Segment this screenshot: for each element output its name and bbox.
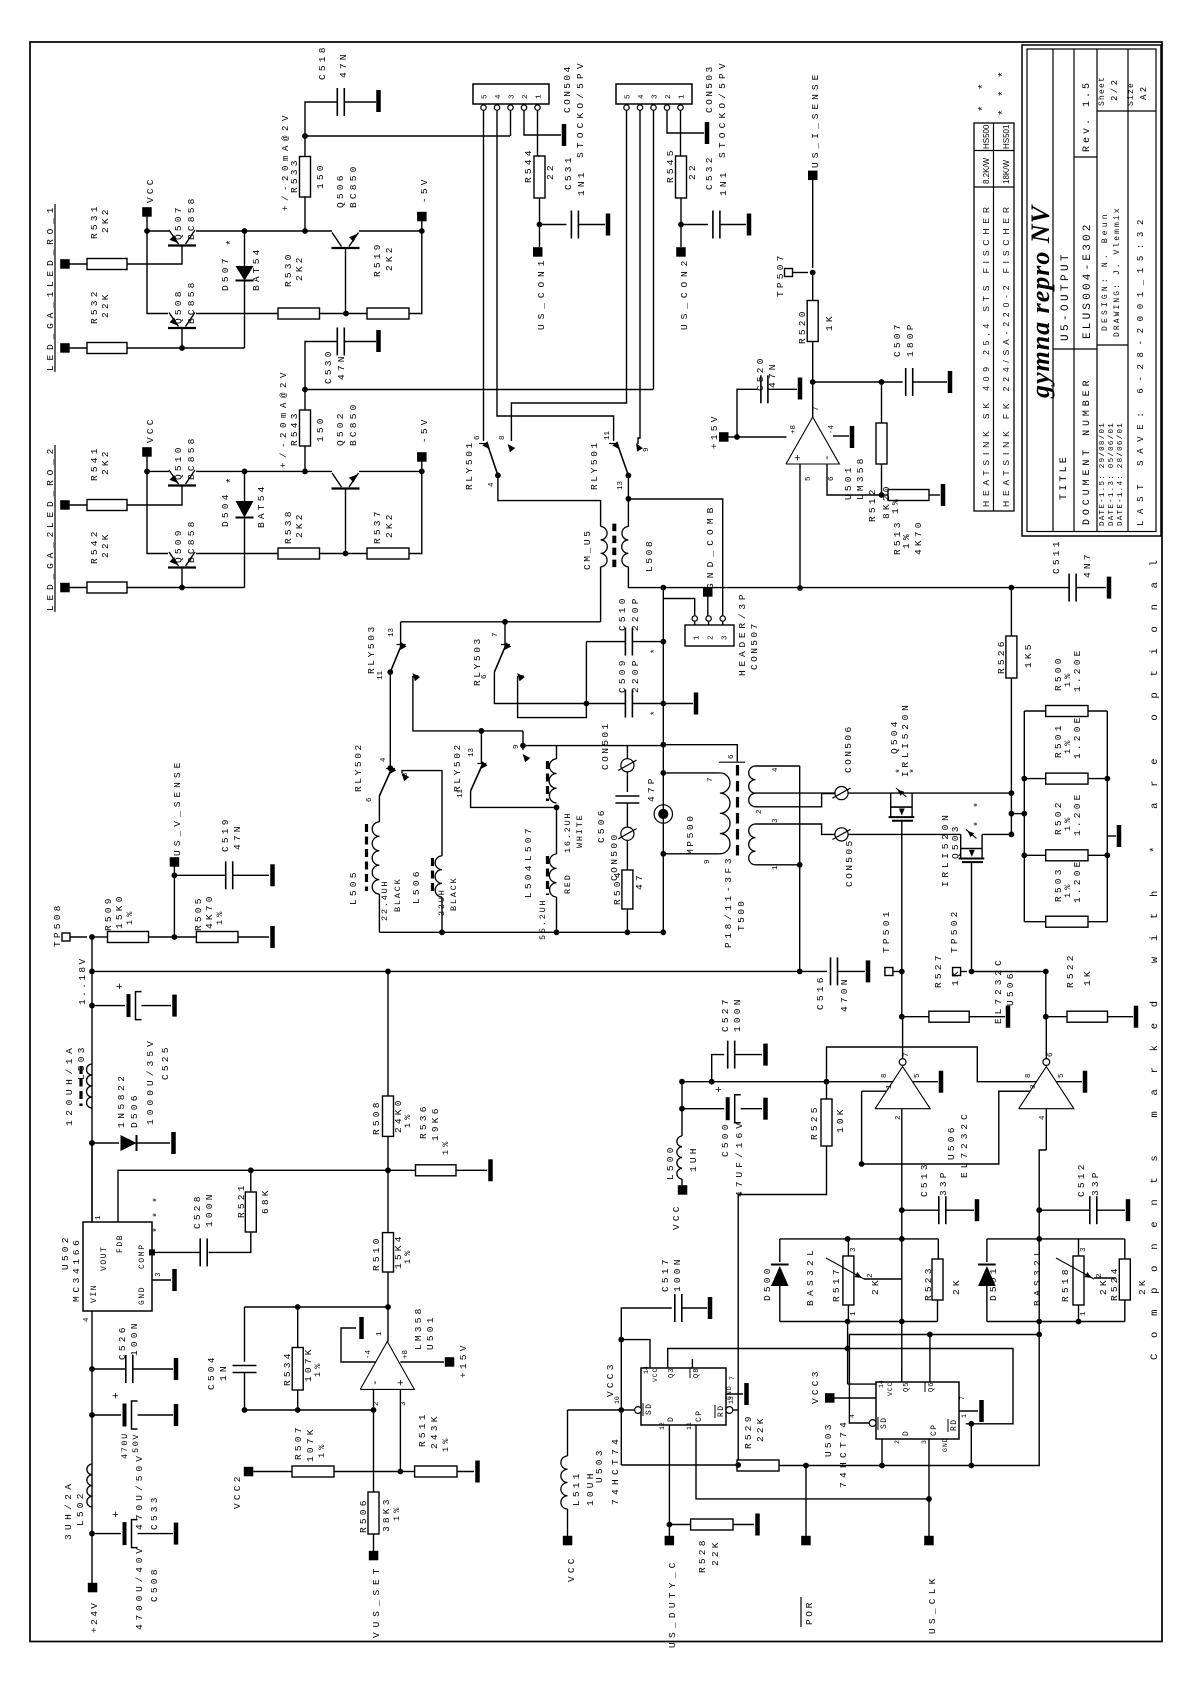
svg-text:CON505: CON505 <box>844 838 855 887</box>
wire Q503 drain to bank tap <box>982 833 1011 835</box>
svg-text:2K: 2K <box>1098 1277 1109 1295</box>
transistor Q508 BC858 <box>168 327 196 329</box>
svg-text:2K: 2K <box>870 1277 881 1295</box>
port VCC (block2) <box>142 447 152 457</box>
ground (C527) <box>763 1044 768 1066</box>
svg-text:CON507: CON507 <box>749 621 760 670</box>
svg-text:47P: 47P <box>646 775 657 802</box>
wire <box>69 587 87 589</box>
transformer T500 secondary lower <box>749 824 756 865</box>
wire U506a input riser <box>901 1109 903 1382</box>
svg-text:68K: 68K <box>260 1187 271 1214</box>
svg-text:SD: SD <box>645 1403 654 1415</box>
svg-text:150: 150 <box>315 162 326 189</box>
svg-text:R541: R541 <box>89 445 100 481</box>
port US_I_SENSE <box>812 177 814 268</box>
svg-text:D: D <box>667 1417 676 1422</box>
svg-text:R504: R504 <box>612 869 623 905</box>
wire VCC3 riser to POR net <box>620 1410 622 1465</box>
svg-text:DATE-1.4: 28/06/01: DATE-1.4: 28/06/01 <box>1117 422 1125 526</box>
capacitor C519 47N <box>174 874 225 876</box>
resistor R519 2K2 <box>367 308 409 319</box>
svg-text:Q5: Q5 <box>903 1382 911 1392</box>
svg-text:EL7232C: EL7232C <box>959 1112 970 1178</box>
wire CON504 pin1 to R544 <box>537 110 539 156</box>
wire R524 <box>1124 1239 1126 1259</box>
wire Q509 base to LED_GA_2 <box>181 568 183 588</box>
ground (C507) <box>913 381 947 383</box>
svg-text:2K: 2K <box>951 1277 962 1295</box>
svg-text:-4: -4 <box>365 1349 373 1359</box>
svg-text:C526: C526 <box>117 1324 128 1360</box>
svg-text:50V: 50V <box>131 1433 141 1453</box>
svg-text:GND: GND <box>726 1385 733 1400</box>
svg-text:6: 6 <box>828 476 836 481</box>
wire top row py1307 (C504/R534) <box>245 1306 389 1308</box>
svg-text:R525: R525 <box>809 1104 820 1140</box>
capacitor C520 47N <box>760 375 762 403</box>
svg-text:Q503: Q503 <box>950 823 961 859</box>
svg-text:3: 3 <box>155 1272 163 1277</box>
connector CON504 STOCKO/5PV <box>473 84 549 104</box>
svg-text:R534: R534 <box>282 1350 293 1386</box>
wire RLY503b common to C509 net <box>494 672 586 703</box>
ground (U506b pin5) <box>1056 1081 1082 1083</box>
svg-text:1%: 1% <box>317 1441 327 1458</box>
svg-text:VCC: VCC <box>145 416 156 443</box>
inductor L503 120UH/1A <box>87 1064 92 1108</box>
ground (C509 node) <box>663 703 693 705</box>
wire RLY501b common to L508 <box>627 475 629 498</box>
port LED_GA_1 <box>60 343 69 353</box>
svg-text:R510: R510 <box>371 1235 382 1271</box>
wire Q502 emitter to -5V 2 <box>359 470 422 472</box>
svg-text:100N: 100N <box>204 1191 215 1227</box>
svg-text:D506: D506 <box>129 1092 140 1128</box>
inductor L511 10UH <box>561 1456 568 1509</box>
svg-text:1N1: 1N1 <box>576 169 587 196</box>
svg-text:22: 22 <box>687 162 698 180</box>
wire long row py745.6 <box>523 745 663 747</box>
wire <box>69 347 87 349</box>
svg-text:*: * <box>895 768 907 774</box>
svg-text:-5V: -5V <box>419 416 430 443</box>
svg-text:+8: +8 <box>790 425 798 434</box>
wire U506a pin1 <box>862 1090 887 1092</box>
svg-text:+8: +8 <box>402 1350 410 1359</box>
wire U503a CP pin <box>696 1425 929 1499</box>
svg-text:EL7232C: EL7232C <box>993 958 1004 1024</box>
wire Q506 base <box>345 248 347 314</box>
svg-text:R544: R544 <box>523 147 534 183</box>
wire +15V node <box>728 436 738 438</box>
svg-text:8: 8 <box>1025 1073 1033 1078</box>
resistor R510 15K4 1% <box>383 1233 394 1272</box>
svg-text:L505: L505 <box>348 869 359 905</box>
svg-text:22: 22 <box>545 162 556 180</box>
svg-text:R531: R531 <box>89 203 100 239</box>
port US_DUTY_C <box>668 1525 670 1537</box>
svg-text:*: * <box>650 711 660 716</box>
svg-text:L504: L504 <box>523 862 534 898</box>
wire U501a output <box>387 1307 389 1342</box>
svg-text:SD: SD <box>880 1417 889 1429</box>
resistor R527 1K <box>902 1016 929 1018</box>
svg-text:*: * <box>650 649 660 654</box>
port LED_RO_2 <box>60 500 69 510</box>
wire U506b input riser <box>1045 1109 1047 1150</box>
ground (C520) <box>768 388 797 390</box>
trimmer R517 2K <box>843 1256 854 1305</box>
wire R543 <box>304 446 306 471</box>
resistor R526 1K5 <box>1006 636 1017 678</box>
capacitor C510 220P <box>586 641 625 643</box>
svg-text:RLY502: RLY502 <box>353 742 364 792</box>
resistor R536 19K6 1% <box>416 1165 457 1176</box>
wire Q503 source <box>971 862 973 971</box>
transistor Q502 BC850 <box>332 487 360 489</box>
resistor R525 10K <box>821 1099 832 1146</box>
snubber loop B bottom <box>987 1321 1125 1323</box>
svg-text:C507: C507 <box>892 321 903 357</box>
resistor R500 1.20E 1% <box>1046 706 1088 717</box>
svg-text:7: 7 <box>707 777 715 782</box>
svg-text:R521: R521 <box>236 1182 247 1218</box>
svg-text:L508: L508 <box>644 539 655 572</box>
svg-text:BC858: BC858 <box>186 279 197 324</box>
svg-text:2K2: 2K2 <box>294 511 305 538</box>
wire Q509 collector row <box>196 553 278 555</box>
svg-text:47N: 47N <box>336 353 347 380</box>
svg-text:220P: 220P <box>630 595 641 631</box>
svg-text:*: * <box>978 83 990 90</box>
svg-text:C520: C520 <box>755 355 766 391</box>
wire RLY502b pin9 riser + branch <box>522 731 524 750</box>
wire R521 <box>250 1170 252 1192</box>
svg-text:47N: 47N <box>232 823 243 850</box>
svg-text:STOCKO/5PV: STOCKO/5PV <box>717 61 728 158</box>
svg-text:22K: 22K <box>710 1539 721 1566</box>
wire VCC3b to box <box>835 1397 877 1399</box>
testpoint TP507 <box>785 269 793 277</box>
svg-text:7: 7 <box>729 1376 736 1380</box>
svg-text:R543: R543 <box>289 410 300 446</box>
svg-text:3: 3 <box>509 94 517 99</box>
svg-text:2: 2 <box>867 1273 875 1278</box>
capacitor C516 470N (inline to gnd) <box>830 957 832 985</box>
svg-text:R529: R529 <box>743 1413 754 1449</box>
svg-text:R505: R505 <box>193 895 204 931</box>
svg-text:CP: CP <box>695 1410 704 1422</box>
wire R504 bottom <box>626 909 628 932</box>
svg-text:US_V_SENSE: US_V_SENSE <box>172 760 183 856</box>
svg-text:7: 7 <box>492 632 500 637</box>
title block inner <box>1027 49 1156 532</box>
capacitor C500 47UF/16V <box>682 1108 724 1110</box>
wire CON506 row <box>755 792 836 794</box>
svg-text:Q504: Q504 <box>889 718 900 754</box>
svg-text:VUS_SET: VUS_SET <box>371 1566 382 1638</box>
wire Q506 emitter to -5V <box>359 230 422 232</box>
svg-text:10UH: 10UH <box>585 1470 596 1506</box>
svg-text:RLY501: RLY501 <box>464 440 475 490</box>
wire U503b Q pin to U506a <box>901 1368 903 1382</box>
svg-text:9: 9 <box>643 447 651 452</box>
svg-text:US_CON2: US_CON2 <box>679 258 690 330</box>
wire R526 <box>1010 588 1012 636</box>
wire CON503 pin1 to R545 <box>680 110 682 156</box>
svg-text:BC858: BC858 <box>186 195 197 240</box>
resistor R521 68K <box>245 1192 256 1232</box>
diode D506 1N5822 <box>89 1140 95 1146</box>
resistor R532 22K <box>87 343 127 354</box>
driver U506 half B EL7232C <box>1019 1067 1074 1109</box>
svg-text:1%: 1% <box>403 1247 413 1264</box>
svg-text:R538: R538 <box>283 508 294 544</box>
svg-text:US_I_SENSE: US_I_SENSE <box>810 72 821 168</box>
svg-text:1.20E: 1.20E <box>1072 858 1083 903</box>
svg-text:1.20E: 1.20E <box>1072 791 1083 836</box>
wire net2 to C530 <box>305 342 337 390</box>
wire U501a pin4 gnd <box>341 1328 376 1362</box>
wire U503b SD pin <box>869 1420 876 1427</box>
port VCC (block1) <box>142 207 152 217</box>
wire U503b GND pin <box>959 1410 978 1412</box>
svg-text:BLACK: BLACK <box>449 876 459 911</box>
ground (C513) <box>946 1209 974 1211</box>
ground (CON503 pin2) <box>705 122 710 144</box>
svg-text:3: 3 <box>400 1401 408 1406</box>
resistor R534 107K 1% <box>292 1348 303 1391</box>
svg-text:107K: 107K <box>305 1426 316 1462</box>
svg-text:1: 1 <box>886 1084 894 1089</box>
resistor R520 1K <box>807 301 818 342</box>
ground (bank) <box>1107 835 1116 837</box>
svg-text:5: 5 <box>625 94 633 99</box>
wire to R505 <box>149 936 175 938</box>
testpoint TP508 <box>62 933 70 941</box>
svg-text:74HCT74: 74HCT74 <box>610 1437 621 1505</box>
svg-text:*: * <box>152 1227 164 1233</box>
mosfet Q503 IRLI520N <box>960 834 962 858</box>
resistor R529 22K <box>737 1460 779 1471</box>
svg-text:CON501: CON501 <box>600 721 611 770</box>
svg-text:D504: D504 <box>220 491 231 527</box>
svg-text:1: 1 <box>694 635 702 640</box>
wire R517 pin1 to U503b <box>847 1322 849 1385</box>
svg-text:4K70: 4K70 <box>913 519 924 555</box>
svg-text:HEADER/3P: HEADER/3P <box>737 592 748 676</box>
inductor L500 1UH <box>677 1136 682 1179</box>
svg-text:4K70: 4K70 <box>204 893 215 929</box>
ground (C517) <box>682 1307 707 1309</box>
svg-text:R532: R532 <box>89 288 100 324</box>
svg-text:22K: 22K <box>755 1415 766 1442</box>
svg-text:9: 9 <box>414 674 422 679</box>
svg-text:R507: R507 <box>293 1424 304 1460</box>
svg-text:*: * <box>998 109 1010 116</box>
svg-text:2: 2 <box>665 94 673 99</box>
ground (C533) <box>174 1404 179 1426</box>
svg-text:2K2: 2K2 <box>100 448 111 475</box>
svg-text:Q508: Q508 <box>173 288 184 324</box>
svg-text:Q510: Q510 <box>173 444 184 480</box>
resistor R543 150 <box>300 410 311 446</box>
wire C528 to COMP <box>152 1251 200 1253</box>
svg-text:Q8: Q8 <box>693 1368 701 1378</box>
svg-text:1: 1 <box>850 1311 858 1316</box>
wire R517 wiper <box>864 1278 902 1280</box>
wire RLY503a pin13 riser <box>400 622 402 648</box>
svg-text:2: 2 <box>708 635 716 640</box>
wire CON504 pin4 to RLY501b pin11 <box>497 110 614 441</box>
op-amp U501 half A <box>360 1342 414 1390</box>
svg-text:1UH: 1UH <box>688 1145 699 1172</box>
svg-text:US_DUTY_C: US_DUTY_C <box>667 1560 678 1648</box>
wire U506b pin3 <box>999 1090 1030 1092</box>
svg-text:VIN: VIN <box>90 1284 99 1303</box>
wire CON503 pin5 to L508 node <box>511 110 626 441</box>
svg-text:TP502: TP502 <box>949 908 960 953</box>
snubber loop A top <box>780 1238 939 1240</box>
svg-text:C531: C531 <box>563 154 574 190</box>
resistor R542 22K <box>87 582 127 593</box>
svg-text:P18/11-3F3: P18/11-3F3 <box>723 856 734 948</box>
wire CON507 pin3 to RLY501b common <box>628 499 722 616</box>
svg-text:+: + <box>396 1379 408 1386</box>
port +15V (U501a) <box>445 1357 455 1367</box>
svg-text:9: 9 <box>704 859 712 864</box>
svg-text:U501: U501 <box>425 1314 436 1350</box>
svg-text:1.20E: 1.20E <box>1072 647 1083 692</box>
svg-text:R508: R508 <box>371 1099 382 1135</box>
ground (R528) <box>733 1524 754 1526</box>
svg-text:+15V: +15V <box>709 413 720 449</box>
ground (C511) <box>1076 587 1106 589</box>
svg-text:2K: 2K <box>1137 1277 1148 1295</box>
transistor Q509 BC858 <box>168 566 196 568</box>
svg-text:*: * <box>973 802 985 808</box>
svg-text:4700U/40V: 4700U/40V <box>134 1546 145 1630</box>
resistor R511 243K 1% <box>415 1466 457 1477</box>
svg-text:BC858: BC858 <box>186 518 197 563</box>
svg-text:CON506: CON506 <box>843 724 854 773</box>
inductor L508 right winding <box>622 527 629 567</box>
svg-text:8: 8 <box>499 435 507 440</box>
svg-text:LM358: LM358 <box>413 1305 424 1350</box>
svg-text:VCC3: VCC3 <box>605 1361 616 1397</box>
svg-text:LM358: LM358 <box>855 455 866 500</box>
wire U501a pin8 to +15V <box>400 1361 444 1363</box>
title block outer <box>1022 45 1161 536</box>
svg-text:Q6: Q6 <box>928 1382 936 1392</box>
wire U501b pin5 to sense net <box>799 464 801 588</box>
svg-text:10K: 10K <box>835 1106 846 1133</box>
wire C504 bottom <box>244 1373 246 1411</box>
title block dividers <box>1052 49 1054 532</box>
svg-text:3: 3 <box>772 818 780 823</box>
port POR <box>801 1536 811 1546</box>
svg-text:5: 5 <box>482 94 490 99</box>
capacitor C518 47N <box>336 88 338 116</box>
svg-text:180P: 180P <box>905 321 916 357</box>
wire pin3 riser <box>399 1389 401 1471</box>
inductor L507 16.2UH WHITE <box>549 759 556 803</box>
svg-text:1N: 1N <box>218 1363 229 1381</box>
svg-text:Q509: Q509 <box>173 527 184 563</box>
svg-text:RED: RED <box>563 873 573 894</box>
svg-text:VCC3: VCC3 <box>810 1368 821 1404</box>
svg-text:1: 1 <box>772 865 780 870</box>
wire U502 VOUT pin to rail <box>91 1143 93 1222</box>
ground (C532) <box>720 224 746 226</box>
svg-text:ELUS004-E302: ELUS004-E302 <box>1082 221 1094 339</box>
svg-text:220P: 220P <box>630 657 641 693</box>
svg-text:R509: R509 <box>103 895 114 931</box>
svg-text:4: 4 <box>495 94 503 99</box>
svg-text:470N: 470N <box>839 976 850 1012</box>
svg-text:US_CON1: US_CON1 <box>536 258 547 330</box>
svg-text:Q507: Q507 <box>173 204 184 240</box>
svg-text:GND: GND <box>942 1437 949 1452</box>
wire U503b CP pin to US_CLK <box>928 1439 930 1499</box>
svg-text:3: 3 <box>722 635 730 640</box>
wire RLY501a common to CM_U5 <box>498 475 601 526</box>
wire U502 VIN pin down <box>91 1311 93 1583</box>
resistor R523 2K <box>932 1259 943 1300</box>
pad CON500 <box>626 803 628 827</box>
wire U503a VCC pin <box>621 1340 650 1410</box>
wire VCC row py1081.7 <box>682 1081 893 1083</box>
ground (R527) <box>969 1016 1005 1018</box>
svg-text:R526: R526 <box>996 638 1007 674</box>
svg-text:13: 13 <box>388 627 396 637</box>
pad CON505 <box>835 828 848 841</box>
ground (C512) <box>1097 1209 1125 1211</box>
wire VCC rail <box>146 216 148 231</box>
capacitor C513 33P <box>902 1209 939 1211</box>
svg-text:1K5: 1K5 <box>1023 641 1034 668</box>
capacitor C511 4N7 <box>1068 574 1070 602</box>
svg-text:14: 14 <box>643 1366 650 1374</box>
svg-text:CP: CP <box>930 1424 939 1436</box>
wire +/-20mA net to C518 <box>305 102 337 136</box>
svg-text:C508: C508 <box>149 1566 160 1602</box>
main rail riser px663 <box>662 588 664 933</box>
svg-text:D507: D507 <box>220 255 231 291</box>
port VUS_SET <box>369 1551 379 1561</box>
wire U503a D pin to US_DUTY_C <box>668 1425 670 1525</box>
port VCC (U506 area) <box>678 1185 688 1195</box>
svg-text:11: 11 <box>457 788 465 798</box>
svg-text:-: - <box>822 454 834 461</box>
svg-text:*: * <box>973 821 985 827</box>
capacitor C517 100N <box>621 1308 672 1340</box>
svg-text:2: 2 <box>373 1401 381 1406</box>
svg-text:C527: C527 <box>720 996 731 1032</box>
svg-text:47N: 47N <box>338 51 349 78</box>
svg-text:2K2: 2K2 <box>384 244 395 271</box>
svg-text:GND: GND <box>138 1286 147 1305</box>
wire L506 bottom <box>441 897 443 932</box>
svg-text:+: + <box>793 454 805 461</box>
port LED_RO_1 <box>60 259 69 269</box>
diode D504 BAT54 <box>244 471 246 501</box>
svg-text:5: 5 <box>805 476 813 481</box>
svg-text:1: 1 <box>536 94 544 99</box>
svg-text:HS500: HS500 <box>982 124 991 149</box>
wire bank tap <box>1011 813 1024 815</box>
